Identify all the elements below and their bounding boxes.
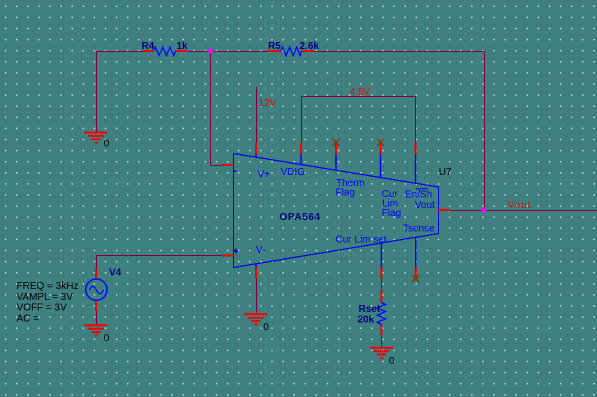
- svg-text:VOFF = 3V: VOFF = 3V: [17, 303, 68, 314]
- op-amp minus input tick: [234, 170, 237, 172]
- ground G3 under V-: [244, 314, 267, 324]
- ground G4 under Rset: [370, 348, 393, 358]
- svg-text:20k: 20k: [358, 315, 375, 326]
- op-amp U7 OPA564 body: [234, 154, 439, 268]
- wire: ground branch vertical left: [96, 52, 98, 132]
- svg-text:Vout: Vout: [415, 200, 435, 211]
- wire: feedback node vertical down to inverting input: [210, 52, 212, 166]
- svg-text:V-: V-: [256, 245, 265, 256]
- svg-text:Flag: Flag: [382, 208, 401, 219]
- svg-text:0: 0: [263, 322, 269, 333]
- wire: top-left horizontal to R4: [96, 51, 143, 53]
- wire: 4.5V bracket: [302, 97, 416, 143]
- svg-text:AC =: AC =: [17, 313, 40, 324]
- svg-text:1k: 1k: [177, 41, 189, 52]
- no-connect X on Therm Flag pin: [332, 139, 339, 146]
- wire: 12V supply vertical: [256, 87, 258, 143]
- svg-text:FREQ = 3kHz: FREQ = 3kHz: [17, 281, 79, 292]
- no-connect X on Tsense pin: [412, 275, 419, 282]
- wire: output horizontal to right edge: [450, 210, 597, 212]
- no-connect X on Cur Lim Flag pin: [377, 139, 384, 146]
- resistor R5: [268, 47, 314, 56]
- svg-text:V4: V4: [109, 268, 122, 279]
- svg-text:R5: R5: [268, 41, 281, 52]
- wire: V4 top vertical: [96, 256, 98, 269]
- svg-text:OPA564: OPA564: [280, 212, 321, 223]
- resistor R4: [143, 47, 188, 56]
- op-amp red output stub right: [438, 209, 450, 211]
- voltage source V4: [86, 269, 107, 312]
- op-amp top pin connector lines: [256, 155, 416, 184]
- svg-text:V+: V+: [258, 170, 271, 181]
- wire: output column vertical: [484, 52, 486, 211]
- wire: horizontal into inverting input: [211, 165, 224, 167]
- ground G2 under V4: [85, 325, 108, 335]
- wire: V4 bottom to ground: [96, 311, 98, 324]
- op-amp red input stubs left: [223, 165, 235, 256]
- ground G1 top-left: [85, 133, 108, 143]
- wire: Rset bottom to ground: [381, 336, 383, 347]
- svg-text:VAMPL = 3V: VAMPL = 3V: [17, 292, 74, 303]
- junction node at output: [482, 208, 487, 213]
- svg-text:12V: 12V: [259, 98, 277, 109]
- svg-text:2.6k: 2.6k: [300, 41, 320, 52]
- svg-text:En/Sh: En/Sh: [405, 190, 432, 201]
- wire: non-inverting input horizontal: [96, 255, 223, 257]
- op-amp red pin stubs bottom: [256, 267, 416, 279]
- op-amp red pin stubs top: [256, 143, 416, 155]
- op-amp plus input sign: [233, 249, 238, 254]
- op-amp bottom pin connector lines: [256, 237, 416, 267]
- svg-text:VDIG: VDIG: [281, 167, 306, 178]
- svg-text:4.5V: 4.5V: [350, 87, 371, 98]
- svg-text:R4: R4: [142, 41, 155, 52]
- svg-text:Flag: Flag: [336, 188, 355, 199]
- svg-text:0: 0: [104, 333, 110, 344]
- svg-text:Tsense: Tsense: [403, 224, 435, 235]
- junction node at feedback tap: [208, 49, 213, 54]
- svg-text:Cur Lim set: Cur Lim set: [336, 235, 387, 246]
- svg-text:Vout: Vout: [508, 200, 532, 211]
- svg-text:0: 0: [389, 356, 395, 367]
- wire: R4 to R5 horizontal: [187, 51, 268, 53]
- wire: V- pin to ground: [256, 279, 258, 314]
- wire: Cur Lim set pin to Rset: [381, 279, 383, 291]
- svg-text:U7: U7: [439, 167, 452, 178]
- resistor Rset: [377, 290, 385, 335]
- svg-text:Rset: Rset: [359, 304, 381, 315]
- wire: R5 right to output column: [314, 51, 485, 53]
- svg-text:0: 0: [104, 139, 110, 150]
